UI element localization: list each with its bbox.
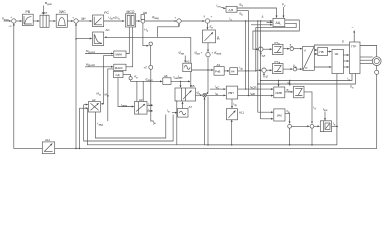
- svg-text:ε̂φ: ε̂φ: [287, 109, 290, 114]
- block GTR inverter: [350, 42, 361, 74]
- svg-text:МИН: МИН: [116, 53, 123, 57]
- svg-text:+: +: [175, 16, 177, 20]
- block A3p: [135, 102, 148, 115]
- svg-text:А11: А11: [239, 111, 244, 115]
- block RchV: [214, 67, 224, 76]
- svg-text:Єимп: Єимп: [146, 77, 154, 82]
- svg-text:Iов: Iов: [149, 108, 153, 113]
- node cross 245: [245, 70, 246, 71]
- svg-text:ЗОТ: ЗОТ: [42, 11, 48, 15]
- svg-text:А5: А5: [191, 84, 195, 88]
- wire P_y into ATs top: [283, 7, 285, 18]
- wire RTa to C4: [283, 48, 289, 50]
- wire A2p bottom stub: [94, 112, 96, 118]
- summer S1: [12, 19, 16, 23]
- wire trunk vertical to IM upper: [258, 21, 273, 112]
- node cross 248: [248, 70, 249, 71]
- block OMV: [274, 87, 285, 98]
- wire C1 down to phi glyph: [143, 23, 149, 46]
- svg-text:IsCR: IsCR: [250, 85, 256, 90]
- svg-text:АЦ: АЦ: [276, 21, 281, 25]
- svg-text:Is': Is': [314, 106, 317, 111]
- svg-text:ЁВ: ЁВ: [143, 11, 147, 15]
- svg-text:+: +: [72, 15, 74, 19]
- wire UVP in2: [206, 94, 225, 96]
- svg-text:Δ: Δ: [262, 15, 264, 19]
- wire sumA to sumB: [181, 20, 204, 22]
- node xcirc: [203, 93, 207, 97]
- wire A11 bottom feedback: [231, 120, 233, 145]
- svg-text:Iома: Iома: [121, 103, 127, 108]
- svg-text:МСО: МСО: [127, 10, 135, 14]
- block PV: [318, 47, 328, 55]
- node trunk2 top: [257, 20, 258, 21]
- wire S5 to RTpsi: [266, 69, 272, 71]
- block SD: [114, 71, 124, 77]
- wire UVP out2 to OMV: [238, 95, 273, 97]
- block AS: [93, 32, 104, 46]
- block EV small: [141, 15, 145, 20]
- wire UVP out1 to OMV: [238, 88, 273, 90]
- wire S2 feedback vertical: [75, 23, 77, 148]
- block A4: [230, 68, 238, 75]
- block RTpsi relay: [273, 63, 284, 73]
- wire PV to EK: [327, 51, 331, 53]
- svg-text:Є: Є: [342, 40, 344, 44]
- summer S4: [259, 47, 263, 51]
- block UVP: [226, 86, 237, 99]
- wire phase b: [360, 59, 372, 61]
- summer B: [205, 19, 209, 23]
- wire branch down into A5 top: [180, 81, 182, 87]
- block MSO: [126, 14, 136, 27]
- wire ATs input low: [251, 24, 272, 26]
- node second vertical bottom: [79, 148, 81, 150]
- wire inverter meas down 1: [261, 74, 352, 81]
- wire A2 to RchV: [192, 69, 214, 71]
- block RV speed regulator: [23, 14, 34, 26]
- wire MAX out up to MSO: [126, 27, 133, 67]
- svg-text:РВ: РВ: [26, 10, 31, 14]
- wire RR fb loop: [205, 98, 337, 145]
- wire AV out2 down: [237, 11, 248, 96]
- svg-text:Iоб: Iоб: [149, 102, 153, 107]
- svg-text:Iи: Iи: [167, 109, 170, 114]
- wire sumB to ATs: [210, 20, 273, 22]
- wire SD out to circle: [123, 75, 131, 77]
- node n into AS: [75, 38, 76, 39]
- wire IC to PV upper: [314, 49, 317, 51]
- block EK: [332, 49, 343, 73]
- wire MAX tap down: [108, 69, 113, 121]
- svg-text:РчВ: РчВ: [215, 70, 220, 74]
- wire psi vertical lower: [151, 69, 154, 121]
- block ATs: [273, 18, 285, 26]
- block IC coordinate converter: [303, 46, 315, 70]
- svg-text:Р: Р: [306, 66, 308, 70]
- svg-text:А6: А6: [164, 74, 168, 78]
- block A2 sine: [183, 63, 192, 71]
- wire loop L3 upturn: [176, 100, 178, 145]
- node C4: [290, 47, 294, 51]
- wire RZ out down to S8: [304, 92, 312, 124]
- motor AD: [372, 57, 381, 66]
- svg-text:А3: А3: [217, 63, 221, 67]
- wire GTR right top to motor: [360, 46, 377, 57]
- wire trunk vertical to IM lower: [261, 21, 274, 119]
- wire MSO to EV: [136, 20, 141, 22]
- wire psi line down into A5: [190, 37, 192, 87]
- wire C4 to IC: [294, 48, 302, 50]
- wire A5 out to xcirc: [196, 94, 203, 96]
- block ZI torque limiter: [40, 15, 49, 27]
- svg-text:Isш: Isш: [323, 107, 328, 112]
- wire IM out to S7: [285, 113, 290, 123]
- wire ATs input mid: [267, 22, 273, 24]
- wire psi_zad into A2: [184, 56, 186, 63]
- wire vertical from main line down: [245, 21, 247, 89]
- svg-text:А3: А3: [139, 98, 143, 102]
- wire ATs loopB to S5: [256, 23, 296, 70]
- summer A: [177, 19, 181, 23]
- node SD circle: [129, 77, 132, 80]
- svg-text:nзад: nзад: [2, 17, 9, 22]
- svg-text:Iм: Iм: [215, 91, 218, 96]
- wire branch down into A3p top2: [142, 81, 144, 102]
- wire C5 to IC: [297, 68, 302, 70]
- wire EK bottom current feedback: [336, 74, 338, 127]
- wire RS to MSO: [104, 20, 125, 22]
- block RR: [320, 121, 331, 132]
- summer S5: [262, 68, 266, 72]
- svg-text:Ûs: Ûs: [350, 84, 354, 90]
- wire loop L3: [87, 109, 337, 145]
- svg-text:А4: А4: [231, 70, 235, 74]
- wire S4 bottom stub: [260, 52, 262, 56]
- svg-text:–n: –n: [8, 24, 12, 28]
- node meas1 join: [260, 80, 261, 81]
- wire main flux line to sum A: [145, 20, 177, 22]
- summer Sx on psi vertical: [149, 65, 153, 69]
- svg-text:fим: fим: [178, 75, 182, 80]
- block IM: [274, 109, 285, 121]
- wire inverter meas down 2: [258, 74, 356, 84]
- svg-text:А2: А2: [186, 60, 190, 64]
- svg-text:МАКС: МАКС: [115, 66, 123, 70]
- node trunk1 top: [260, 20, 261, 21]
- wire circle to A6: [131, 80, 163, 82]
- wire EK to GTR 3: [343, 66, 348, 68]
- node A11 fb: [231, 144, 233, 146]
- summer S2: [74, 19, 78, 23]
- summer S8: [310, 124, 314, 128]
- wire EK to GTR 2: [343, 60, 348, 62]
- wire psi tap to RZ: [289, 81, 291, 86]
- wire S8 bottom tap: [311, 128, 313, 145]
- wire phase c: [360, 62, 373, 64]
- block D: [203, 30, 216, 43]
- summer S6: [206, 52, 210, 56]
- wire second left vertical: [78, 108, 80, 148]
- wire UVP down to A11: [231, 99, 233, 108]
- block A6: [163, 78, 171, 85]
- wire A4 out to S5 feed: [238, 70, 256, 72]
- wire input n_ref: [4, 20, 11, 22]
- node main line tap: [245, 20, 246, 21]
- wire sumB down to D: [207, 23, 209, 29]
- wire MIN out up to MSO: [126, 27, 129, 54]
- wire RchV to A4: [224, 70, 229, 72]
- svg-text:АС: АС: [106, 28, 110, 32]
- wire S2 to RS: [78, 20, 92, 22]
- wire RR out to junction: [332, 125, 339, 127]
- svg-text:ЗИС: ЗИС: [59, 10, 66, 14]
- wire branch up into sumA: [157, 23, 179, 37]
- wire M_dop into ZI top: [43, 6, 45, 15]
- node bottom junction S2fb: [75, 148, 77, 150]
- svg-text:ИМ: ИМ: [277, 113, 282, 117]
- wire A3p out2: [147, 110, 153, 112]
- wire loop L1: [95, 115, 165, 139]
- wire into A3p from SD drop: [118, 78, 134, 107]
- block RTa relay: [273, 44, 284, 54]
- node OMV tap: [278, 80, 279, 81]
- node C5: [293, 67, 297, 71]
- wire ZI to ZIS: [49, 20, 55, 22]
- wire S6 down joins A2 output: [206, 57, 208, 94]
- wire S7 bottom tap: [289, 128, 291, 145]
- wire motor down speed feedback: [14, 23, 377, 148]
- wire D down to S6: [207, 43, 209, 52]
- node psi_s bottom: [207, 144, 209, 146]
- wire S1 to RV: [16, 20, 22, 22]
- wire A6 out to psi fb vertical: [171, 80, 190, 82]
- wire ATs loopA to S4: [253, 20, 299, 49]
- node AV1 junction: [245, 88, 246, 89]
- wire loop L2: [84, 105, 173, 142]
- node AV2 junction: [248, 95, 249, 96]
- sensor BR: [375, 70, 379, 74]
- block A7 sine: [178, 108, 188, 117]
- wire S4 to RTa: [263, 48, 272, 50]
- node A4 line join: [255, 70, 256, 71]
- node RR out: [336, 126, 338, 128]
- svg-text:СД: СД: [116, 73, 120, 77]
- summer S7: [288, 124, 292, 128]
- wire phase a: [360, 56, 373, 58]
- svg-text:А,В: А,В: [229, 8, 234, 12]
- wire UVP in1: [210, 88, 226, 90]
- node f_imp branch: [180, 81, 181, 82]
- wire n feedback into AS: [76, 38, 92, 40]
- wire MIN tap down into A2p right: [101, 56, 113, 104]
- block RS current regulator: [93, 15, 104, 27]
- wire A7 input left: [172, 112, 177, 114]
- svg-text:ГТР: ГТР: [351, 45, 356, 49]
- wire IC bottom to EK: [314, 66, 331, 68]
- wire ZIS to S2: [67, 20, 73, 22]
- svg-text:~: ~: [352, 26, 354, 30]
- block A2p: [89, 102, 101, 113]
- block AV: [226, 6, 237, 12]
- wire AV out1 to ATs top: [237, 8, 277, 18]
- wire RV to ZI: [33, 20, 39, 22]
- svg-text:А7: А7: [189, 105, 193, 109]
- wire psi line into AC block: [104, 36, 190, 38]
- svg-text:IsC: IsC: [215, 85, 219, 90]
- wire I_ssh into RR top: [324, 112, 326, 121]
- wire A3p out1: [147, 105, 153, 107]
- svg-text:+: +: [211, 15, 213, 19]
- wire A7 up to A5: [182, 102, 184, 109]
- wire psi_s vertical to bottom line: [207, 97, 209, 145]
- block MAX: [114, 64, 126, 71]
- wire M_dop2 into MAX: [85, 66, 113, 68]
- wire psi distribution vertical: [150, 46, 152, 66]
- wire branch down into A3p top1: [136, 81, 138, 102]
- wire fs into AV: [219, 7, 225, 9]
- node meas2 join: [257, 83, 258, 84]
- wire S5 bottom stub: [263, 73, 265, 77]
- node RZ tap: [289, 80, 290, 81]
- wire S7 to S8: [292, 125, 310, 127]
- block ZIS intensity setter: [56, 14, 67, 27]
- wire S8 to RR: [314, 125, 320, 127]
- svg-text:fзад: fзад: [98, 122, 104, 127]
- wire OMV to RZ: [285, 91, 293, 93]
- svg-text:Ẑи: Ẑи: [290, 43, 294, 49]
- wire IC to PV lower: [314, 53, 317, 55]
- wire EK to GTR 1: [343, 54, 348, 56]
- node S7 fb: [289, 144, 291, 146]
- svg-text:М*: М*: [82, 17, 87, 21]
- svg-text:А2: А2: [92, 98, 96, 102]
- wire into A2p left2: [79, 107, 87, 109]
- block A5: [175, 88, 196, 101]
- node phi glyph: [149, 42, 152, 45]
- block RZ: [294, 86, 305, 98]
- wire IC top over to GTR: [314, 45, 349, 46]
- node C1: [141, 19, 145, 23]
- svg-text:ОМВ: ОМВ: [275, 91, 282, 95]
- node S6 junction: [207, 69, 208, 70]
- block A12 tacho: [42, 142, 54, 154]
- wire GTR supply up: [353, 31, 355, 43]
- wire M_dop1 into MIN: [85, 53, 113, 55]
- node S8 fb: [311, 144, 313, 146]
- svg-text:ЭК: ЭК: [335, 52, 339, 56]
- svg-text:Ẑψ: Ẑψ: [293, 63, 297, 69]
- svg-text:ПВ: ПВ: [320, 50, 324, 54]
- wire OMV top tap: [278, 81, 280, 87]
- svg-text:УВП: УВП: [228, 91, 234, 95]
- block A11: [226, 109, 237, 120]
- wire RTpsi to C5: [283, 68, 293, 70]
- wire into A2p left1: [84, 104, 88, 106]
- svg-text:А12: А12: [45, 138, 51, 142]
- svg-text:+: +: [10, 15, 12, 19]
- svg-text:IмR: IмR: [250, 91, 255, 96]
- block MIN: [114, 51, 126, 57]
